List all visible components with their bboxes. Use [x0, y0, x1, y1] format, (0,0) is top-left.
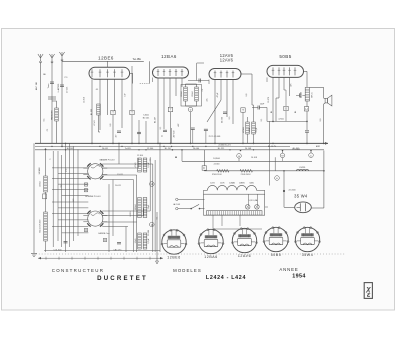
capacitor: [223, 112, 227, 113]
tube V1 12BE6: [89, 67, 130, 79]
wire terminal c stub: [310, 150, 312, 153]
wire MF res bottom: [185, 101, 187, 106]
svg-text:T: T: [170, 108, 172, 112]
resistor det a: [246, 122, 250, 134]
wire 12BE6 pin5: [121, 79, 123, 128]
tube socket V4: [263, 227, 289, 252]
svg-text:T: T: [242, 108, 244, 112]
wire 12AV6 pin3: [226, 80, 228, 118]
wire out trans down: [306, 101, 308, 107]
svg-text:CONSTRUCTEUR: CONSTRUCTEUR: [52, 268, 104, 273]
resistor right stack 5: [138, 233, 142, 249]
wire nest horizontal: [102, 221, 136, 223]
wire 50B5 anode: [304, 70, 308, 72]
terminal d: [150, 182, 155, 187]
svg-text:CAL 5YC: CAL 5YC: [113, 248, 122, 251]
svg-text:12.300: 12.300: [137, 155, 143, 157]
svg-text:HP 21: HP 21: [312, 92, 314, 97]
coil heater chain: [208, 185, 257, 190]
svg-text:ARR: ARR: [316, 145, 321, 148]
wire vertical: [61, 155, 63, 247]
wire vertical: [132, 180, 134, 253]
capacitor: [258, 106, 259, 110]
resistor MF2 a: [184, 87, 188, 101]
mains plug: [176, 198, 178, 200]
trimmer capacitor: [103, 238, 106, 241]
terminal a: [237, 154, 242, 159]
wire nest horizontal: [102, 174, 136, 176]
svg-text:4,7: 4,7: [116, 135, 118, 138]
svg-text:12.870: 12.870: [268, 97, 270, 103]
svg-text:BL 001: BL 001: [143, 117, 150, 119]
wire mid vertical a: [269, 121, 271, 185]
svg-text:PARASITE: PARASITE: [51, 109, 54, 119]
svg-text:1MΩ: 1MΩ: [249, 127, 251, 132]
wire vertical: [125, 227, 127, 253]
svg-text:47 pF: 47 pF: [217, 92, 219, 98]
terminal e: [275, 176, 280, 181]
svg-text:GAMME PO-GO: GAMME PO-GO: [99, 158, 115, 161]
svg-text:47kΩ: 47kΩ: [135, 162, 137, 167]
lamp 1: [245, 205, 250, 210]
wire 12BE6 pin3: [107, 79, 109, 115]
tube 35W4 electrodes: [299, 203, 301, 211]
variable capacitor gang 1: [83, 163, 107, 179]
svg-text:12BA6: 12BA6: [161, 54, 177, 59]
stamp logo: [364, 283, 372, 299]
svg-text:5,6kΩ: 5,6kΩ: [143, 115, 149, 117]
svg-text:CV 223: CV 223: [67, 87, 69, 93]
wire 12AV6 pin4: [232, 80, 234, 125]
coil LN2RL: [297, 169, 309, 171]
capacitor under 12BE6 a: [117, 131, 121, 132]
component trimmer MF: [168, 107, 172, 111]
svg-text:0,1: 0,1: [160, 127, 162, 130]
junction dots on buses: [65, 143, 67, 145]
resistor right stack 3: [138, 198, 142, 218]
winding output transformer: [305, 88, 309, 102]
antenna Terre: [49, 54, 54, 63]
wire antenna link to tube: [62, 60, 144, 62]
wire 12BE6 anode to right: [130, 72, 133, 74]
tube socket V1: [161, 229, 187, 254]
svg-text:BL.207: BL.207: [154, 117, 156, 123]
wire vertical: [73, 146, 75, 241]
wire 12BA6 pin3: [169, 78, 171, 107]
svg-text:12BA6: 12BA6: [229, 182, 235, 185]
tube V3 12AV6: [209, 69, 241, 80]
resistor 370 ohm: [217, 169, 229, 172]
svg-text:BL: BL: [295, 111, 297, 113]
wire nest horizontal: [102, 167, 138, 169]
wire vertical: [118, 143, 120, 164]
svg-text:22.500: 22.500: [221, 116, 223, 123]
resistor right stack 6: [143, 233, 147, 249]
wire 12AV6 pin1: [214, 80, 216, 144]
switch mains: [178, 208, 191, 210]
resistor 270 ohm: [240, 169, 253, 172]
wire vertical: [136, 175, 138, 252]
wire 12AV6 pin2: [220, 80, 222, 101]
resistor right stack 4: [143, 198, 147, 218]
svg-text:ANNEE: ANNEE: [279, 267, 298, 272]
wire nest horizontal: [102, 226, 128, 228]
wire vertical: [112, 180, 114, 237]
wire cap low b drop: [205, 131, 207, 144]
wire nest horizontal: [102, 215, 143, 217]
wire mains bottom: [200, 208, 205, 210]
capacitor link CA: [199, 79, 200, 83]
capacitor low b: [204, 129, 208, 130]
tube V2 12BA6: [153, 67, 189, 78]
svg-text:12V6: 12V6: [220, 183, 224, 185]
IF transformer can: [181, 85, 202, 107]
resistor det b: [252, 122, 256, 134]
wire det res join: [247, 117, 249, 122]
wire vertical: [52, 151, 54, 247]
wire bottom baseline: [44, 250, 160, 252]
wire 12BA6 pin2: [163, 78, 165, 129]
capacitor: [300, 93, 301, 97]
wire 50B5 pin2: [278, 77, 280, 98]
component 24J400: [283, 190, 285, 192]
wire B+ drop2: [306, 132, 308, 143]
trimmer capacitor: [84, 189, 87, 192]
svg-text:24 J400: 24 J400: [288, 189, 296, 191]
wire x139 drop: [138, 120, 140, 143]
svg-text:0,1: 0,1: [261, 119, 263, 122]
resistor MF2 b: [195, 87, 199, 101]
wire main bus AVC/ground: [35, 142, 328, 144]
scale bar: [38, 257, 163, 260]
component out: [304, 107, 308, 111]
component grid stopper: [284, 106, 288, 110]
resistor 47k: [97, 104, 101, 115]
svg-text:BL.220: BL.220: [91, 108, 93, 115]
svg-text:22.046: 22.046: [148, 230, 150, 236]
wire vertical: [149, 157, 151, 211]
wire tone link: [296, 94, 300, 96]
svg-text:BL.305: BL.305: [293, 148, 300, 150]
svg-text:CADRE Osc.: CADRE Osc.: [98, 232, 111, 235]
svg-text:10nF: 10nF: [260, 104, 265, 106]
resistor PARASITE 47k: [55, 108, 59, 121]
wire 12BE6 pin2: [99, 79, 101, 130]
tube V5 35W4: [295, 202, 312, 213]
wire lamp stubs: [248, 194, 250, 206]
lamp 2: [255, 205, 260, 210]
svg-text:T: T: [131, 111, 133, 115]
capacitor B+: [305, 131, 309, 132]
svg-text:0,9: 0,9: [320, 119, 322, 122]
wire m down stub: [282, 158, 284, 162]
wire 12BA6 pin5: [181, 78, 183, 87]
svg-text:24.108: 24.108: [251, 157, 257, 159]
svg-text:100kΩ: 100kΩ: [192, 91, 194, 97]
svg-text:50pF: 50pF: [148, 204, 150, 209]
capacitor under 12BE6 b: [137, 132, 141, 133]
capacitor bottom left b: [117, 243, 121, 244]
svg-text:24.011: 24.011: [115, 185, 121, 187]
wire nest horizontal: [52, 225, 88, 227]
wire vertical: [77, 149, 79, 236]
svg-text:22k: 22k: [207, 98, 209, 101]
svg-text:100kΩ: 100kΩ: [181, 91, 183, 97]
wire nest horizontal: [52, 213, 88, 215]
svg-text:5,3V 0,3A: 5,3V 0,3A: [249, 199, 258, 202]
capacitor under 12BA6: [163, 130, 167, 131]
svg-text:POT. 0,5 MΩ: POT. 0,5 MΩ: [209, 136, 221, 138]
svg-text:12AV6: 12AV6: [220, 58, 234, 63]
wire parasite link: [56, 101, 58, 108]
svg-text:BL: BL: [271, 111, 273, 113]
wire bus 3: [35, 149, 324, 151]
svg-text:BL.221: BL.221: [218, 148, 225, 150]
resistor left stack 1: [44, 176, 48, 192]
svg-text:0,5: 0,5: [229, 117, 231, 120]
wire 35W4 left: [284, 206, 295, 208]
wire right riser: [323, 151, 325, 209]
wire r47k join: [98, 115, 100, 132]
wire nest horizontal: [58, 172, 88, 174]
wire 171.6 drop: [171, 128, 173, 143]
tube socket V5: [295, 227, 321, 252]
wire fuse link: [203, 150, 205, 166]
wire G down: [285, 111, 287, 122]
svg-text:A.P 300: A.P 300: [173, 131, 176, 138]
svg-text:COL 800: COL 800: [54, 249, 63, 251]
svg-text:270Ω 245V: 270Ω 245V: [241, 174, 252, 176]
wire mid vertical b: [274, 157, 276, 171]
wire dashed link: [140, 82, 150, 84]
svg-text:24.051: 24.051: [102, 148, 109, 150]
capacitor low a: [191, 128, 195, 129]
wire speaker drop: [323, 88, 325, 99]
svg-text:6.810: 6.810: [130, 212, 132, 217]
wire terminal a stub: [238, 158, 240, 161]
wire coupling: [252, 104, 254, 106]
wire left edge drop: [33, 143, 35, 253]
wire diagonal AV6: [207, 100, 221, 122]
svg-text:0,5: 0,5: [44, 119, 46, 122]
svg-text:L2424 - L424: L2424 - L424: [206, 275, 246, 281]
capacitor antenna 2: [50, 82, 54, 83]
wire nest horizontal: [58, 207, 88, 209]
svg-text:0,1µF: 0,1µF: [148, 162, 150, 168]
svg-text:50B5: 50B5: [279, 54, 291, 59]
terminal c: [309, 153, 314, 158]
power block box: [204, 194, 265, 215]
svg-text:50B5: 50B5: [249, 183, 253, 185]
resistor left stack 2: [44, 212, 48, 241]
svg-text:470kΩ: 470kΩ: [243, 127, 245, 133]
resistor right stack 2: [143, 158, 147, 172]
wire vertical: [65, 143, 67, 252]
wire HT line: [182, 160, 312, 162]
wire nest horizontal: [52, 178, 88, 180]
svg-text:50B5: 50B5: [271, 253, 282, 257]
svg-text:220kΩ: 220kΩ: [135, 204, 137, 210]
wire nest horizontal: [58, 183, 88, 185]
svg-text:12BE6: 12BE6: [98, 56, 114, 61]
antenna ANT.BE: [38, 54, 43, 63]
svg-text:0,5µF: 0,5µF: [148, 238, 150, 244]
wire T1 trimmer drop: [112, 115, 114, 144]
svg-text:47 kΩ: 47 kΩ: [94, 120, 96, 126]
wire T1-T2 link vertical: [149, 61, 151, 83]
wire vertical: [57, 151, 59, 241]
wire cap low a drop: [192, 129, 194, 143]
svg-text:6,8: 6,8: [246, 94, 248, 97]
svg-text:12BA6: 12BA6: [204, 255, 218, 259]
tube V4 50B5: [267, 65, 304, 77]
svg-text:12V4: 12V4: [210, 183, 214, 185]
svg-text:BOBINE PO-GO: BOBINE PO-GO: [85, 196, 101, 198]
svg-text:10kΩ: 10kΩ: [135, 238, 137, 243]
svg-text:35W4: 35W4: [302, 253, 314, 257]
svg-text:12BE6: 12BE6: [167, 255, 181, 259]
wire antenna 2 drop: [51, 62, 53, 143]
svg-text:1954: 1954: [292, 274, 306, 280]
wire nest horizontal: [52, 189, 88, 191]
wire heater right: [257, 189, 265, 191]
wire 12BE6 pin4: [114, 79, 116, 111]
terminal MF: [188, 107, 193, 112]
svg-text:BL.207: BL.207: [165, 148, 172, 150]
svg-text:G1: G1: [96, 89, 99, 91]
trimmer capacitor: [84, 183, 87, 186]
svg-text:4,7kΩ: 4,7kΩ: [278, 119, 284, 121]
wire left stack connect: [45, 149, 47, 176]
svg-text:BL.101: BL.101: [67, 148, 74, 150]
component T2 trimmer: [130, 110, 134, 114]
wire vertical: [137, 158, 139, 168]
svg-text:0,2: 0,2: [61, 185, 63, 188]
svg-text:47n: 47n: [291, 83, 293, 86]
svg-text:Terre: Terre: [47, 83, 50, 89]
winding filament bar: [207, 211, 263, 215]
wire rectifier line: [204, 170, 324, 172]
svg-text:MODELES: MODELES: [173, 268, 202, 273]
wire T2 trimmer: [131, 66, 133, 110]
ground symbol left: [31, 254, 37, 257]
wire between T2 T3 top: [196, 63, 198, 81]
svg-text:12.810: 12.810: [84, 97, 86, 103]
wire B+ drop: [306, 121, 308, 130]
wire nest horizontal: [52, 201, 88, 203]
wire antenna 3 drop: [61, 60, 63, 146]
wire under 50B5: [273, 120, 307, 122]
wire MF down: [190, 112, 192, 144]
svg-text:24.108: 24.108: [245, 148, 252, 150]
wire coupling2: [252, 107, 258, 109]
svg-text:24.340: 24.340: [214, 163, 220, 165]
wire nest horizontal: [102, 163, 153, 165]
svg-text:LN2RL: LN2RL: [299, 167, 306, 169]
antenna L.APER: [59, 52, 64, 61]
wire nest horizontal: [62, 232, 89, 234]
svg-text:F: F: [203, 166, 205, 170]
svg-text:24,3kΩ: 24,3kΩ: [213, 158, 220, 160]
svg-text:12.300: 12.300: [147, 148, 154, 150]
svg-text:370Ω 110V: 370Ω 110V: [212, 174, 223, 176]
antenna small bottom: [156, 212, 158, 261]
svg-text:24.064: 24.064: [193, 148, 200, 150]
wire nest horizontal: [102, 210, 150, 212]
variable capacitor gang 2: [83, 211, 107, 227]
wire MF res top link: [185, 84, 187, 87]
wire bus 2: [35, 145, 290, 147]
wire T2 left end drop: [152, 78, 154, 83]
svg-text:C2: C2: [47, 129, 49, 131]
wire speaker top: [309, 87, 323, 89]
wire vertical: [108, 184, 110, 252]
wire dotted baseline: [36, 253, 345, 255]
svg-text:T: T: [112, 111, 114, 115]
svg-text:TeL./BE: TeL./BE: [133, 58, 142, 61]
tube socket V3: [232, 228, 258, 253]
terminal g: [150, 222, 155, 227]
resistor right stack 1: [138, 158, 142, 172]
svg-text:DUCRETET: DUCRETET: [97, 275, 148, 282]
svg-text:24.064 BL.221: 24.064 BL.221: [218, 145, 230, 147]
component small box left: [43, 194, 47, 199]
speaker HP: [325, 95, 332, 106]
capacitor bottom left a: [64, 242, 68, 243]
svg-text:25 µF: 25 µF: [256, 127, 258, 133]
svg-text:GO: GO: [73, 198, 75, 201]
wire power box bottom rail: [213, 228, 262, 230]
wire nest horizontal: [52, 167, 88, 169]
wire nest horizontal: [102, 179, 133, 181]
svg-text:6,8: 6,8: [110, 124, 112, 127]
wire heater left: [204, 189, 208, 191]
component trimmer det: [241, 108, 245, 112]
wire nest horizontal: [58, 219, 88, 221]
wire vertical: [154, 160, 156, 252]
svg-text:12BE6: 12BE6: [239, 183, 245, 185]
svg-text:21: 21: [161, 135, 163, 137]
wire 35W4 link: [311, 207, 324, 209]
svg-text:24.0488: 24.0488: [39, 168, 41, 175]
wire antenna 1 drop: [40, 62, 42, 143]
svg-text:ε: ε: [367, 290, 371, 299]
junction dots on buses 2: [99, 146, 100, 147]
wire mains top: [178, 198, 205, 200]
wire vertical: [152, 164, 154, 252]
component T1 trimmer: [111, 110, 115, 114]
wire trimmer MF drop: [170, 112, 172, 144]
wire det drop: [242, 112, 244, 143]
svg-text:1,2: 1,2: [150, 159, 152, 162]
wire T4 left end drop: [266, 77, 268, 82]
wire T3 left end drop: [208, 80, 210, 85]
svg-text:TeL/RL: TeL/RL: [125, 148, 132, 150]
svg-text:12AV6: 12AV6: [238, 254, 251, 258]
svg-text:35 W4: 35 W4: [294, 193, 308, 198]
wire 12BA6 pin1: [157, 78, 159, 143]
svg-text:H: H: [305, 107, 307, 111]
wire 12BE6 pin1: [91, 79, 93, 143]
wire 50B5 pin3: [283, 77, 285, 90]
wire vertical: [159, 143, 161, 252]
wire nest horizontal: [62, 195, 89, 197]
terminal m: [280, 153, 285, 158]
wire 50B5 pin1: [272, 77, 274, 121]
wire vertical: [143, 208, 145, 215]
capacitor C ant: [48, 96, 56, 98]
wire terminal m stub: [282, 150, 284, 153]
